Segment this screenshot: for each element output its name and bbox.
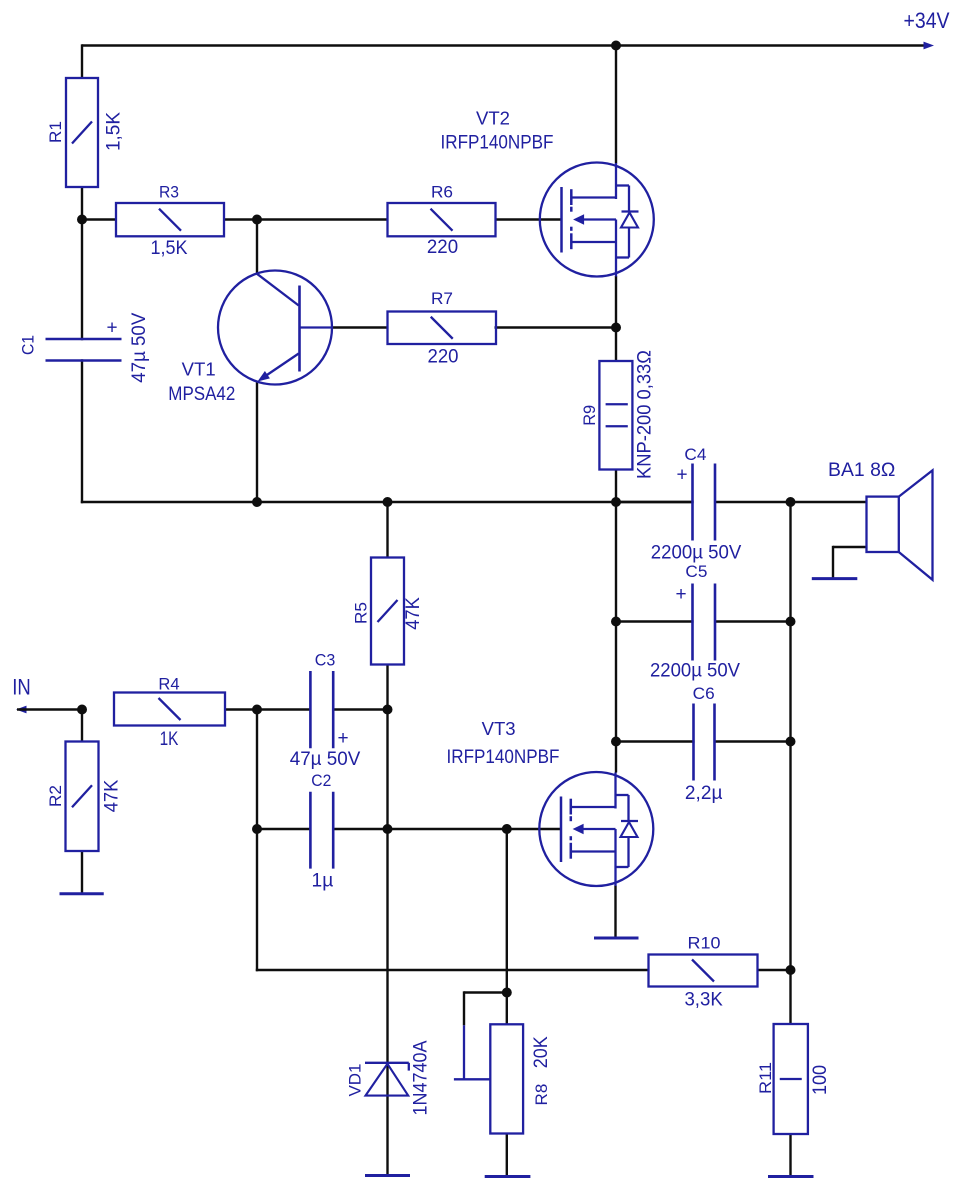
svg-text:IN: IN — [12, 675, 31, 700]
wire rail to R1 — [81, 44, 83, 78]
svg-text:KNP-200 0,33Ω: KNP-200 0,33Ω — [635, 350, 656, 479]
resistor R11 — [756, 1024, 831, 1134]
wire C6 row left — [616, 740, 695, 742]
svg-text:+: + — [675, 584, 686, 605]
wire R3 to R6 — [223, 218, 389, 220]
svg-text:47µ 50V: 47µ 50V — [290, 749, 361, 770]
trimmer R8 — [454, 1024, 552, 1133]
svg-text:VD1: VD1 — [346, 1064, 365, 1097]
node C6 left junction — [611, 737, 621, 747]
wire R1 to C1 — [81, 187, 83, 341]
svg-text:R7: R7 — [431, 289, 453, 308]
resistor R2 — [46, 742, 123, 852]
svg-text:2200µ 50V: 2200µ 50V — [651, 543, 742, 564]
wire VT1 collector lead — [256, 218, 258, 273]
node R4/C3 junction — [252, 705, 262, 715]
wire C1 to bus corner — [81, 359, 83, 503]
svg-text:VT1: VT1 — [182, 360, 216, 380]
wire IN lead — [17, 708, 82, 710]
svg-text:R6: R6 — [431, 183, 453, 202]
svg-text:C3: C3 — [315, 651, 336, 670]
wire R8 wiper vertical — [463, 991, 465, 1025]
wire C5 row right — [714, 620, 791, 622]
node R1/R3 junction — [77, 215, 87, 225]
port arrow IN — [12, 675, 31, 714]
wire junction to R2 — [81, 710, 83, 743]
svg-text:VT2: VT2 — [476, 109, 510, 129]
wire R5 to C3 row — [386, 665, 388, 711]
ground R11 — [768, 1175, 814, 1178]
wire bus left segment — [81, 501, 694, 503]
wire R10 right lead — [758, 969, 792, 971]
svg-text:+: + — [676, 465, 687, 486]
node rail/VT2 junction — [611, 41, 621, 51]
node bus/speaker junction — [786, 497, 796, 507]
svg-text:IRFP140NPBF: IRFP140NPBF — [447, 746, 560, 768]
node R9/bus junction — [611, 497, 621, 507]
svg-text:C6: C6 — [693, 684, 715, 703]
svg-text:1,5K: 1,5K — [104, 112, 125, 151]
capacitor C4 — [651, 445, 742, 563]
resistor R1 — [46, 78, 125, 187]
ground VT3 — [594, 937, 639, 940]
node emitter/bus junction — [252, 497, 262, 507]
ground speaker — [812, 577, 858, 580]
ground R2 — [60, 892, 104, 895]
capacitor C1 — [19, 312, 150, 382]
wire speaker column — [789, 502, 791, 1025]
wire speaker return vertical — [832, 546, 834, 579]
svg-text:2,2µ: 2,2µ — [685, 783, 723, 804]
wire R3 left lead — [82, 218, 117, 220]
resistor R10 — [649, 934, 758, 1011]
ground R8 — [485, 1175, 531, 1178]
wire R6 to VT2 gate — [495, 218, 563, 220]
resistor R7 — [388, 289, 497, 368]
wire feedback left vertical — [256, 828, 258, 971]
resistor R3 — [116, 183, 224, 259]
wire output vertical — [615, 502, 617, 773]
wire bus to R5 — [386, 501, 388, 558]
wire R7 to VT2 source — [495, 326, 618, 328]
wire C3 node down to C2 node right — [386, 708, 388, 830]
wire bus right segment — [714, 501, 867, 503]
node R10/R11 junction — [786, 965, 796, 975]
svg-text:R10: R10 — [688, 934, 721, 953]
svg-text:C5: C5 — [685, 562, 707, 581]
capacitor C2 — [310, 771, 333, 892]
node R8 top junction — [502, 988, 512, 998]
wire C6 row right — [715, 740, 791, 742]
svg-text:R8: R8 — [532, 1084, 551, 1106]
svg-text:100: 100 — [810, 1065, 831, 1095]
wire +34V rail — [82, 44, 925, 46]
node C6 right junction — [786, 737, 796, 747]
wire R8 wiper horizontal — [464, 991, 507, 993]
ground VD1 — [365, 1174, 410, 1177]
wire rail to VT2 drain — [615, 46, 617, 164]
svg-text:47µ 50V: 47µ 50V — [129, 312, 150, 382]
svg-text:IRFP140NPBF: IRFP140NPBF — [441, 132, 554, 154]
wire junction to R9 — [615, 328, 617, 362]
svg-text:C4: C4 — [684, 445, 706, 464]
resistor R6 — [388, 183, 496, 259]
svg-text:1N4740A: 1N4740A — [411, 1040, 432, 1115]
wire VT3 source to ground — [614, 886, 616, 939]
svg-text:1K: 1K — [160, 729, 179, 750]
node C3/R5 junction — [383, 705, 393, 715]
wire C3 node down to C2 node left — [256, 708, 258, 830]
transistor VT3 — [447, 719, 654, 886]
wire R8 top lead — [506, 993, 508, 1026]
wire C2 row right to VT3 gate — [332, 828, 561, 830]
capacitor C5 — [650, 562, 740, 681]
wire VT1 emitter down — [256, 381, 258, 504]
svg-text:+: + — [337, 728, 348, 749]
wire C4 row is bus — [616, 501, 694, 503]
node R3/VT1 junction — [252, 215, 262, 225]
svg-text:20K: 20K — [531, 1036, 552, 1068]
wire zener branch vertical — [386, 828, 388, 1176]
wire C5 row left — [616, 620, 694, 622]
svg-text:R4: R4 — [158, 674, 179, 693]
wire R8 bottom lead — [506, 1134, 508, 1177]
node C2 right junction — [383, 824, 393, 834]
wire R2 to ground — [81, 851, 83, 895]
speaker BA1 — [828, 460, 932, 580]
svg-text:220: 220 — [427, 237, 458, 258]
capacitor C6 — [685, 684, 723, 804]
wire C3 to R5 node — [332, 708, 389, 710]
wire C2 row left — [257, 828, 312, 830]
node VT2/R9 junction — [611, 323, 621, 333]
svg-text:BA1 8Ω: BA1 8Ω — [828, 460, 895, 481]
wire speaker return horizontal — [833, 546, 868, 548]
svg-text:MPSA42: MPSA42 — [168, 383, 235, 405]
wire gate node down to R8 — [506, 829, 508, 994]
svg-text:47K: 47K — [102, 779, 123, 812]
svg-text:R2: R2 — [46, 785, 65, 807]
resistor R5 — [352, 558, 425, 665]
svg-text:+34V: +34V — [904, 8, 950, 33]
wire feedback to R10 — [256, 969, 650, 971]
node R5/bus junction — [383, 497, 393, 507]
svg-text:220: 220 — [428, 347, 459, 368]
svg-text:R3: R3 — [159, 183, 179, 202]
node C2 left junction — [252, 824, 262, 834]
svg-text:R5: R5 — [352, 602, 371, 624]
svg-text:R9: R9 — [580, 405, 599, 426]
svg-text:R1: R1 — [46, 121, 65, 143]
svg-text:1,5K: 1,5K — [151, 238, 188, 259]
wire R4 to C3 — [225, 708, 312, 710]
svg-text:1µ: 1µ — [312, 871, 334, 892]
resistor R9 — [580, 350, 656, 479]
node C5 right junction — [786, 617, 796, 627]
wire R9 to bus — [615, 470, 617, 504]
node C5 left junction — [611, 617, 621, 627]
wire VT1 base to R7 — [332, 326, 389, 328]
transistor VT1 — [168, 271, 332, 405]
power arrow +34V — [904, 8, 950, 49]
svg-text:3,3K: 3,3K — [684, 990, 723, 1011]
svg-text:47K: 47K — [403, 597, 424, 630]
svg-text:R11: R11 — [756, 1062, 775, 1094]
svg-text:C1: C1 — [19, 335, 38, 355]
svg-text:+: + — [106, 318, 117, 339]
svg-text:C2: C2 — [311, 771, 331, 790]
node VT3 gate junction — [502, 824, 512, 834]
wire VT2 source down — [615, 276, 617, 329]
zener diode VD1 — [346, 1040, 432, 1115]
node IN/R2/R4 junction — [77, 705, 87, 715]
resistor R4 — [114, 674, 225, 750]
svg-text:VT3: VT3 — [482, 719, 516, 739]
capacitor C3 — [290, 651, 361, 771]
transistor VT2 — [441, 109, 654, 277]
wire R11 to ground — [789, 1134, 791, 1177]
svg-text:2200µ 50V: 2200µ 50V — [650, 661, 740, 682]
